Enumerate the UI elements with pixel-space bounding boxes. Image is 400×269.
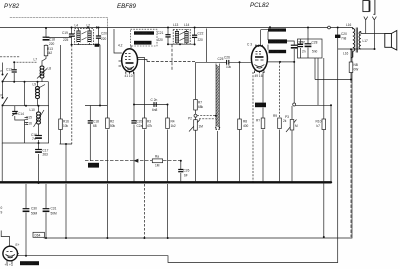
svg-text:n: n xyxy=(1,69,3,73)
svg-text:k7: k7 xyxy=(317,124,321,128)
svg-text:6F: 6F xyxy=(184,174,188,178)
svg-text:EBF89: EBF89 xyxy=(117,3,136,10)
svg-text:KAT./Jel: KAT./Jel xyxy=(270,50,280,54)
svg-text:C16: C16 xyxy=(26,122,32,126)
svg-text:L14: L14 xyxy=(184,23,190,27)
svg-text:C21: C21 xyxy=(158,31,164,35)
svg-text:9: 9 xyxy=(1,211,3,215)
svg-text:0W: 0W xyxy=(354,68,359,72)
svg-text:220: 220 xyxy=(198,38,204,42)
svg-text:R9: R9 xyxy=(273,114,277,118)
svg-text:ANODA 2a: ANODA 2a xyxy=(269,28,282,32)
svg-text:47k: 47k xyxy=(147,124,153,128)
svg-text:2k: 2k xyxy=(283,119,287,123)
svg-text:L17: L17 xyxy=(363,39,369,43)
svg-text:7n8: 7n8 xyxy=(341,37,347,41)
svg-text:PY82: PY82 xyxy=(4,3,20,10)
svg-text:160V: 160V xyxy=(89,164,95,168)
svg-text:L16: L16 xyxy=(346,23,352,27)
svg-text:P3: P3 xyxy=(285,115,289,119)
svg-text:C28: C28 xyxy=(312,41,318,45)
svg-text:C20: C20 xyxy=(341,32,347,36)
svg-text:C 2n: C 2n xyxy=(151,98,158,102)
svg-text:50M: 50M xyxy=(51,212,58,216)
svg-text:R16: R16 xyxy=(63,120,69,124)
svg-text:68k: 68k xyxy=(198,105,204,109)
svg-text:L13: L13 xyxy=(173,23,179,27)
svg-text:1k2: 1k2 xyxy=(171,124,176,128)
svg-text:6n8: 6n8 xyxy=(152,108,158,112)
svg-text:R4: R4 xyxy=(171,120,175,124)
svg-text:C13: C13 xyxy=(6,68,12,72)
svg-text:M: M xyxy=(295,124,298,128)
svg-text:NB: NB xyxy=(354,63,358,67)
svg-text:220: 220 xyxy=(101,37,107,41)
svg-text:RACS/Jel: RACS/Jel xyxy=(269,39,281,43)
svg-text:E+: E+ xyxy=(16,243,20,247)
svg-text:R3: R3 xyxy=(147,120,151,124)
svg-text:400: 400 xyxy=(243,124,249,128)
svg-text:49 16: 49 16 xyxy=(255,74,263,78)
svg-text:R?: R? xyxy=(256,119,260,123)
svg-text:4.2: 4.2 xyxy=(118,44,123,48)
svg-text:C20: C20 xyxy=(101,32,107,36)
svg-text:L7: L7 xyxy=(34,58,38,62)
svg-text:C26: C26 xyxy=(224,56,230,60)
svg-text:2n: 2n xyxy=(302,50,306,54)
svg-text:+9 +3: +9 +3 xyxy=(5,263,13,267)
svg-text:4k2: 4k2 xyxy=(47,51,52,55)
svg-text:0: 0 xyxy=(1,206,3,210)
svg-text:R2: R2 xyxy=(110,120,114,124)
svg-text:50k: 50k xyxy=(110,124,116,128)
svg-text:L16: L16 xyxy=(343,52,349,56)
svg-text:HANG/JEL: HANG/JEL xyxy=(135,41,148,45)
svg-text:68: 68 xyxy=(93,124,97,128)
svg-text:ANV./JAVA: ANV./JAVA xyxy=(21,261,34,265)
svg-text:C31: C31 xyxy=(51,207,57,211)
svg-text:R7: R7 xyxy=(198,101,202,105)
svg-text:7n: 7n xyxy=(32,137,36,141)
svg-text:L8: L8 xyxy=(48,67,52,71)
svg-text:C19: C19 xyxy=(62,31,68,35)
svg-text:2: 2 xyxy=(17,253,19,257)
svg-text:C15: C15 xyxy=(26,116,32,120)
svg-text:D64: D64 xyxy=(35,233,41,237)
svg-text:C18: C18 xyxy=(49,38,55,42)
svg-text:C22: C22 xyxy=(198,32,204,36)
svg-text:41 10: 41 10 xyxy=(125,74,133,78)
svg-text:10k: 10k xyxy=(63,124,69,128)
svg-text:220: 220 xyxy=(49,42,55,46)
svg-text:L2: L2 xyxy=(87,24,91,28)
svg-text:P: P xyxy=(1,94,3,98)
svg-text:10k: 10k xyxy=(226,65,232,69)
svg-text:PCL82: PCL82 xyxy=(250,2,269,9)
svg-text:L4: L4 xyxy=(75,24,79,28)
svg-text:P2: P2 xyxy=(188,117,192,121)
svg-text:1M: 1M xyxy=(199,125,204,129)
svg-text:C14: C14 xyxy=(18,112,24,116)
svg-text:R8: R8 xyxy=(243,120,247,124)
svg-text:R10: R10 xyxy=(316,120,322,124)
svg-text:220: 220 xyxy=(158,38,164,42)
svg-text:L10: L10 xyxy=(30,108,36,112)
svg-text:9 6: 9 6 xyxy=(255,44,260,48)
svg-text:C30: C30 xyxy=(31,207,37,211)
svg-text:L9: L9 xyxy=(33,83,37,87)
svg-text:E225: E225 xyxy=(256,103,263,107)
svg-text:C25: C25 xyxy=(218,57,224,61)
svg-text:263: 263 xyxy=(43,153,49,157)
svg-text:C 3: C 3 xyxy=(247,43,252,47)
svg-text:50M: 50M xyxy=(31,212,38,216)
svg-text:C2a: C2a xyxy=(137,124,143,128)
svg-text:5n0: 5n0 xyxy=(312,50,318,54)
svg-text:C27: C27 xyxy=(299,41,305,45)
svg-text:C18: C18 xyxy=(93,120,99,124)
svg-text:SAV./JAVA: SAV./JAVA xyxy=(135,31,148,35)
svg-text:Ra: Ra xyxy=(155,155,159,159)
svg-text:1M: 1M xyxy=(155,164,160,168)
svg-text:225: 225 xyxy=(63,38,69,42)
svg-text:C26: C26 xyxy=(184,169,190,173)
svg-text:C2b: C2b xyxy=(137,120,143,124)
